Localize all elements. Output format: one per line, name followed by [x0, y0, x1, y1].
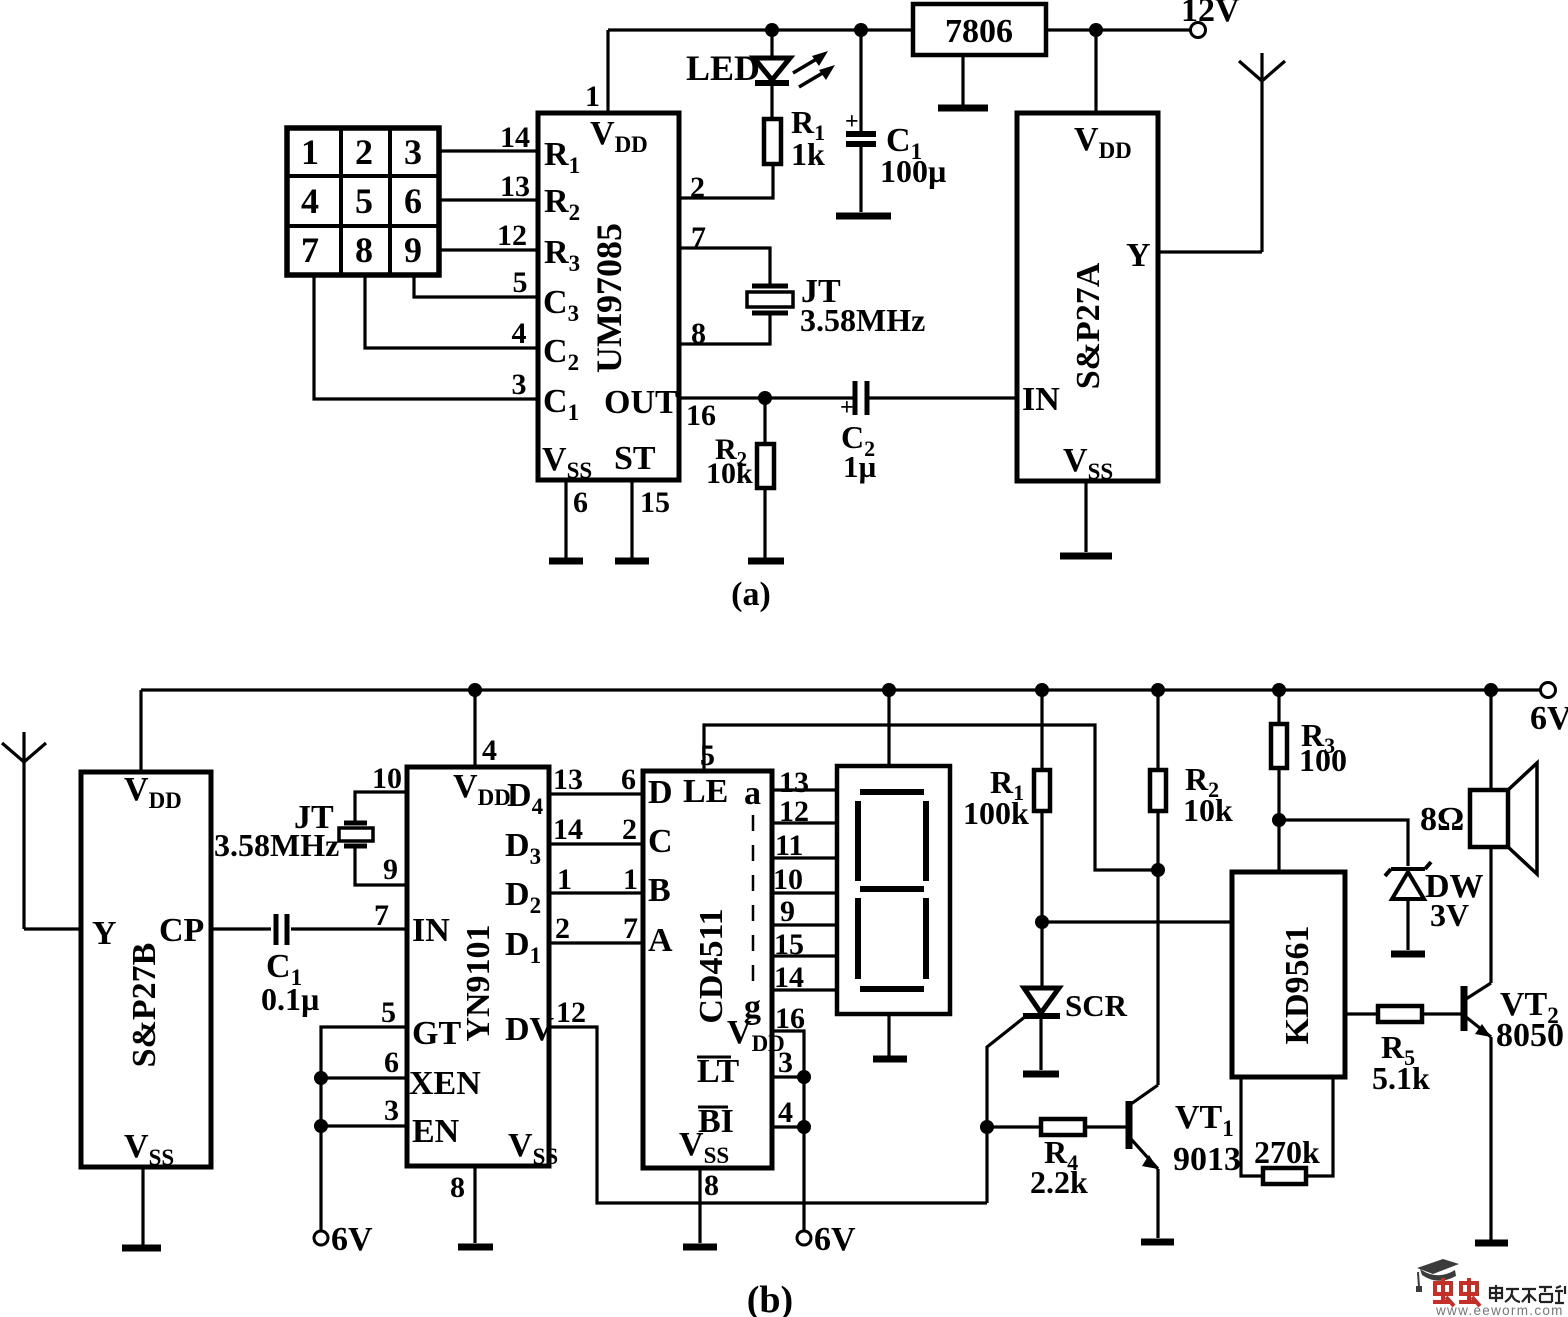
wire keypad col2 to pin4 C2: [365, 275, 538, 348]
wire keypad row3 to pin12: [439, 248, 538, 251]
segment wire a pin13: [772, 766, 837, 799]
svg-text:6: 6: [404, 181, 422, 221]
resistor R1 100k (b): [1034, 770, 1050, 811]
wire C1 to IN (b): [291, 927, 407, 930]
wire D3 to C: [549, 842, 643, 845]
svg-text:12: 12: [497, 219, 527, 252]
svg-text:+: +: [840, 395, 854, 421]
wire rail to C1: [859, 30, 862, 132]
svg-text:5: 5: [381, 996, 396, 1029]
wire R5 to VT2 base: [1422, 1012, 1461, 1015]
pin 1 label D2: [557, 863, 572, 896]
svg-text:8: 8: [704, 1169, 719, 1202]
pin 5 label GT: [381, 996, 396, 1029]
node OUT R2 junction: [758, 391, 772, 405]
wire rail to S&P27B VDD: [139, 690, 142, 772]
ground S&P27A: [1060, 553, 1112, 560]
svg-text:A: A: [648, 922, 673, 959]
svg-text:KD9561: KD9561: [1279, 926, 1316, 1045]
R2 label (a): [706, 433, 753, 490]
wire junction to R4: [987, 1125, 1041, 1128]
svg-text:14: 14: [553, 813, 583, 846]
wire R1 to SCR: [1040, 811, 1043, 988]
wire antenna to Y: [24, 927, 81, 930]
7-segment display: [837, 766, 950, 1014]
VT1 label: [1173, 1099, 1241, 1178]
svg-text:100k: 100k: [963, 795, 1029, 831]
wire pin2 to R1: [679, 164, 773, 198]
svg-text:0.1µ: 0.1µ: [261, 981, 319, 1017]
wire ST pin15 to ground: [630, 480, 633, 558]
node C1 junction: [854, 23, 868, 37]
270k label: [1254, 1134, 1320, 1170]
svg-text:IN: IN: [1022, 381, 1060, 418]
wire D1 to A: [549, 941, 643, 944]
wire R2 to ground: [763, 488, 766, 558]
svg-text:LED: LED: [686, 48, 760, 88]
pin 3 label EN: [384, 1094, 399, 1127]
LED label: [686, 48, 760, 88]
svg-text:+: +: [845, 109, 859, 135]
keypad 3x3: [287, 128, 439, 275]
pin 4 label: [512, 317, 527, 350]
pin 1 label: [585, 80, 600, 113]
IC U5 CD4511: [643, 771, 785, 1168]
segment wire g pin14: [772, 961, 837, 994]
node LED junction: [765, 23, 779, 37]
wire EN: [321, 1124, 407, 1127]
svg-text:UM97085: UM97085: [589, 223, 629, 373]
DW label: [1425, 868, 1484, 933]
wire C2 to IN: [869, 396, 1017, 399]
resistor R1 1k (a): [764, 119, 781, 164]
node LE R2 junction: [1151, 863, 1165, 877]
transistor VT2 8050: [1464, 983, 1491, 1240]
svg-text:14: 14: [774, 961, 804, 994]
pin 8 label YN9101: [450, 1171, 465, 1204]
svg-text:12: 12: [779, 795, 809, 828]
watermark url: [1435, 1303, 1564, 1317]
wire rail to R1 (b): [1040, 690, 1043, 770]
ground VT2: [1475, 1240, 1508, 1247]
R1 label: [791, 104, 825, 172]
resistor R5 5.1k: [1378, 1006, 1422, 1022]
top rail 6V (b): [141, 688, 1541, 691]
ground CD4511: [683, 1244, 717, 1251]
ground VT1: [1141, 1239, 1174, 1246]
wire keypad row2 to pin13: [439, 198, 538, 201]
IC U3 S&P27B: [81, 771, 211, 1170]
ground SCR: [1023, 1071, 1059, 1078]
svg-text:3V: 3V: [1430, 897, 1469, 933]
pin 5 label LE: [700, 739, 715, 772]
svg-text:8: 8: [450, 1171, 465, 1204]
wire R2 down to VT1 collector: [1156, 811, 1159, 1085]
terminal 6V rail: [1530, 683, 1568, 738]
svg-text:3: 3: [778, 1046, 793, 1079]
svg-text:LE: LE: [683, 773, 728, 810]
LED D1: [754, 51, 835, 87]
svg-text:100: 100: [1299, 742, 1347, 778]
ground S&P27B: [122, 1245, 161, 1252]
label (a): [731, 576, 771, 613]
C1 label (b): [261, 948, 319, 1017]
pin 13 label D4: [553, 763, 583, 796]
svg-text:IN: IN: [412, 912, 450, 949]
wire KD9561 to R5: [1345, 1012, 1378, 1015]
R1 label (b): [963, 764, 1029, 831]
svg-text:2: 2: [555, 912, 570, 945]
pin 13 label: [500, 170, 530, 203]
svg-text:6: 6: [384, 1046, 399, 1079]
svg-text:EN: EN: [412, 1113, 460, 1150]
pin 4 label BI: [778, 1096, 793, 1129]
wire keypad col1 to pin3 C1: [314, 275, 538, 399]
svg-text:CD4511: CD4511: [693, 908, 730, 1023]
svg-text:S&P27A: S&P27A: [1070, 262, 1107, 389]
pin 8 label CD4511: [704, 1169, 719, 1202]
pin 6 label XEN: [384, 1046, 399, 1079]
R5 label: [1372, 1029, 1430, 1096]
svg-text:S&P27B: S&P27B: [126, 943, 163, 1068]
ground YN9101: [458, 1244, 493, 1251]
svg-text:5: 5: [355, 181, 373, 221]
wire C1 to ground: [859, 147, 862, 212]
svg-text:11: 11: [775, 829, 803, 862]
wire S&P27B VSS to ground: [141, 1167, 144, 1245]
svg-text:10k: 10k: [1183, 792, 1233, 828]
wire VDD pin16 to 6V: [772, 1031, 804, 1231]
wire crystal to pin9: [355, 848, 407, 885]
wire R2 top: [763, 398, 766, 444]
svg-text:13: 13: [553, 763, 583, 796]
svg-text:SCR: SCR: [1065, 988, 1128, 1023]
R4 label: [1030, 1134, 1088, 1200]
svg-text:2: 2: [622, 813, 637, 846]
wire R3 to KD9561: [1277, 768, 1280, 872]
svg-text:a: a: [744, 775, 761, 812]
svg-text:13: 13: [500, 170, 530, 203]
crystal JT 3.58MHz (b): [339, 823, 373, 846]
segment wire f pin15: [772, 928, 837, 961]
svg-text:5: 5: [700, 739, 715, 772]
ground DW: [1391, 951, 1425, 958]
node EN junction: [314, 1119, 328, 1133]
wire rail to display: [887, 690, 890, 766]
pin 8 label: [691, 317, 706, 350]
IC U2 S&P27A: [1017, 113, 1158, 484]
svg-text:9: 9: [404, 230, 422, 270]
svg-text:10: 10: [773, 863, 803, 896]
ground display: [873, 1056, 907, 1063]
ground VSS (a): [549, 558, 583, 565]
wire rail to R3: [1277, 690, 1280, 724]
svg-text:10: 10: [372, 762, 402, 795]
wire CD4511 VSS to ground: [698, 1168, 701, 1243]
svg-text:3: 3: [404, 132, 422, 172]
watermark bug characters: [1433, 1278, 1480, 1306]
pin 4 label (b): [482, 734, 497, 767]
svg-text:YN9101: YN9101: [460, 924, 497, 1041]
wire BI pin4: [772, 1120, 811, 1134]
wire Y to antenna: [1158, 250, 1262, 253]
terminal 12V: [1181, 0, 1240, 38]
terminal 6V GT: [314, 1221, 373, 1258]
wire rail to LED anode: [770, 30, 773, 58]
wire OUT pin16: [679, 396, 853, 399]
wire keypad row1 to pin14: [439, 149, 538, 152]
segment wire c pin11: [772, 829, 837, 862]
svg-text:3.58MHz: 3.58MHz: [214, 827, 339, 863]
C1 label: [880, 122, 946, 189]
capacitor C1 100u (a) polarized: [845, 109, 876, 144]
svg-text:C: C: [648, 823, 673, 860]
wire YN9101 VSS to ground: [473, 1166, 476, 1243]
svg-text:ST: ST: [614, 440, 656, 477]
wire R4 to VT1 base: [1085, 1125, 1126, 1128]
pin 14 label: [500, 121, 530, 154]
resistor R2 10k (a): [757, 444, 774, 488]
pin 12 label DV: [556, 996, 586, 1029]
label (b): [747, 1279, 793, 1317]
svg-text:8: 8: [691, 317, 706, 350]
svg-text:8050: 8050: [1496, 1017, 1564, 1054]
pin 5 label: [513, 266, 528, 299]
svg-text:CP: CP: [159, 912, 204, 949]
watermark site name glyphs: [1490, 1285, 1565, 1303]
node rail display VDD: [882, 683, 896, 697]
svg-text:6V: 6V: [331, 1221, 373, 1258]
R2 label (b): [1183, 761, 1233, 828]
node rail YN9101 VDD: [468, 683, 482, 697]
pin 3 label LT: [778, 1046, 793, 1079]
svg-text:7806: 7806: [945, 13, 1013, 50]
wire CP to C1: [211, 927, 271, 930]
wire rail to YN9101 pin4: [473, 690, 476, 767]
wire LED cathode to R1: [770, 83, 773, 119]
ground C1 (a): [836, 213, 891, 220]
pin 14 label D3: [553, 813, 583, 846]
node rail R3: [1272, 683, 1286, 697]
svg-text:12V: 12V: [1181, 0, 1240, 29]
wire pin1 VDD to rail: [606, 30, 609, 113]
segment wire b pin12: [772, 795, 837, 828]
wire LT pin3: [772, 1070, 811, 1084]
svg-text:8Ω: 8Ω: [1420, 801, 1464, 838]
SCR label: [1065, 988, 1128, 1023]
regulator 7806: [913, 4, 1046, 55]
pin 6 label D: [621, 763, 636, 796]
speaker 8ohm: [1470, 763, 1537, 874]
pin 7 label A: [623, 912, 638, 945]
svg-text:7: 7: [691, 221, 706, 254]
svg-text:15: 15: [774, 928, 804, 961]
segment wire e pin9: [772, 895, 837, 928]
svg-text:1: 1: [623, 863, 638, 896]
node R4 junction: [980, 1120, 994, 1134]
svg-text:www.eeworm.com: www.eeworm.com: [1435, 1303, 1564, 1317]
resistor R3 100: [1271, 724, 1287, 768]
pin 2 label: [690, 171, 705, 204]
svg-text:9: 9: [780, 895, 795, 928]
svg-text:1: 1: [301, 132, 319, 172]
svg-text:14: 14: [500, 121, 530, 154]
svg-text:OUT: OUT: [604, 384, 678, 421]
svg-text:(b): (b): [747, 1279, 793, 1317]
pin 16 label: [686, 399, 716, 432]
pin 1 label B: [623, 863, 638, 896]
pin 2 label D1: [555, 912, 570, 945]
node rail speaker: [1484, 683, 1498, 697]
svg-text:D: D: [648, 774, 673, 811]
pin 15 label: [640, 486, 670, 519]
svg-text:5.1k: 5.1k: [1372, 1060, 1430, 1096]
segment wire d pin10: [772, 863, 837, 896]
node SCR KD junction: [1035, 915, 1049, 929]
svg-text:9: 9: [383, 853, 398, 886]
svg-text:16: 16: [775, 1002, 805, 1035]
node rail to S&P27A VDD: [1089, 23, 1103, 37]
svg-text:7: 7: [301, 230, 319, 270]
resistor 270k loop: [1241, 1077, 1333, 1184]
wire GT to 6V line: [321, 1027, 407, 1231]
wire D4 to D: [549, 792, 643, 795]
watermark logo cap: [1416, 1259, 1459, 1292]
ground 7806: [938, 105, 988, 112]
svg-text:1: 1: [557, 863, 572, 896]
svg-text:6V: 6V: [1530, 700, 1568, 737]
svg-text:8: 8: [355, 230, 373, 270]
pin 16 label CD4511: [775, 1002, 805, 1035]
pin 7 label: [691, 221, 706, 254]
svg-text:15: 15: [640, 486, 670, 519]
svg-text:3: 3: [512, 368, 527, 401]
resistor R4 2.2k: [1041, 1119, 1085, 1135]
IC U6 KD9561: [1232, 872, 1345, 1077]
antenna (b): [2, 732, 46, 929]
svg-text:6: 6: [573, 486, 588, 519]
wire VSS pin6 to ground: [564, 480, 567, 558]
wire D2 to B: [549, 891, 643, 894]
wire DV pin12 to SCR gate line: [549, 1027, 987, 1203]
pin 2 label C: [622, 813, 637, 846]
svg-text:(a): (a): [731, 576, 771, 613]
node R3 DW junction: [1272, 813, 1286, 827]
pin 10 label (b): [372, 762, 402, 795]
ground R2 (a): [748, 558, 784, 565]
svg-text:6V: 6V: [814, 1221, 856, 1258]
svg-text:B: B: [648, 872, 671, 909]
svg-text:100µ: 100µ: [880, 153, 946, 189]
wire VDD S&P27A: [1094, 30, 1097, 113]
zener diode DW 3V: [1385, 862, 1431, 950]
pin 6 label: [573, 486, 588, 519]
svg-text:7: 7: [623, 912, 638, 945]
wire keypad col3 to pin5 C3: [414, 275, 538, 297]
pin 12 label: [497, 219, 527, 252]
wire pin10 to crystal: [355, 792, 407, 821]
wire S&P27A VSS to ground: [1084, 481, 1087, 552]
SCR thyristor: [987, 988, 1060, 1203]
resistor R2 10k (b): [1150, 770, 1166, 811]
top rail (a): [608, 28, 1191, 31]
svg-text:10k: 10k: [706, 457, 753, 490]
svg-text:4: 4: [482, 734, 497, 767]
svg-text:1k: 1k: [791, 136, 825, 172]
svg-text:5: 5: [513, 266, 528, 299]
node rail R2 (b): [1151, 683, 1165, 697]
svg-text:4: 4: [778, 1096, 793, 1129]
node XEN junction: [314, 1071, 328, 1085]
svg-text:2: 2: [355, 132, 373, 172]
svg-text:16: 16: [686, 399, 716, 432]
wire rail to R2 (b): [1156, 690, 1159, 770]
svg-text:1: 1: [585, 80, 600, 113]
pin 9 label (b): [383, 853, 398, 886]
capacitor C1 0.1u (b): [276, 914, 287, 945]
svg-text:9013: 9013: [1173, 1141, 1241, 1178]
svg-text:7: 7: [374, 899, 389, 932]
wire LE pin5 to R2 node: [704, 725, 1158, 870]
capacitor C2 1u (a): [840, 381, 867, 421]
VT2 label: [1496, 986, 1564, 1054]
svg-text:Y: Y: [92, 915, 117, 952]
svg-text:GT: GT: [412, 1015, 461, 1052]
wire display to ground: [887, 1014, 890, 1056]
svg-text:3.58MHz: 3.58MHz: [800, 302, 925, 338]
IC U4 YN9101: [407, 767, 558, 1169]
JT label (a): [800, 273, 925, 338]
svg-text:1µ: 1µ: [843, 449, 877, 484]
svg-text:6: 6: [621, 763, 636, 796]
JT label (b): [214, 799, 339, 863]
wire XEN: [321, 1076, 407, 1079]
wire junction to KD9561: [1042, 920, 1232, 923]
antenna (a): [1239, 53, 1285, 252]
pin 7 label (b): [374, 899, 389, 932]
svg-text:4: 4: [301, 181, 319, 221]
svg-text:2.2k: 2.2k: [1030, 1164, 1088, 1200]
svg-text:Y: Y: [1126, 237, 1151, 274]
node rail R1 (b): [1035, 683, 1049, 697]
R3 label: [1299, 717, 1347, 778]
wire junction to DW: [1279, 820, 1408, 866]
wire speaker to VT2 collector: [1489, 847, 1492, 983]
ground ST: [615, 558, 649, 565]
svg-text:4: 4: [512, 317, 527, 350]
8ohm label: [1420, 801, 1464, 838]
wire 7806 to ground: [961, 55, 964, 105]
crystal JT 3.58MHz (a): [679, 248, 793, 344]
svg-text:3: 3: [384, 1094, 399, 1127]
wire rail to speaker: [1489, 690, 1492, 790]
IC U1 UM97085: [538, 113, 679, 483]
svg-text:XEN: XEN: [409, 1065, 481, 1102]
terminal 6V CD4511: [797, 1221, 856, 1258]
svg-text:DV: DV: [505, 1011, 555, 1048]
svg-text:270k: 270k: [1254, 1134, 1320, 1170]
transistor VT1 9013: [1129, 1085, 1158, 1238]
svg-text:12: 12: [556, 996, 586, 1029]
C2 label: [841, 419, 877, 484]
svg-text:LT: LT: [697, 1053, 740, 1090]
pin 3 label: [512, 368, 527, 401]
